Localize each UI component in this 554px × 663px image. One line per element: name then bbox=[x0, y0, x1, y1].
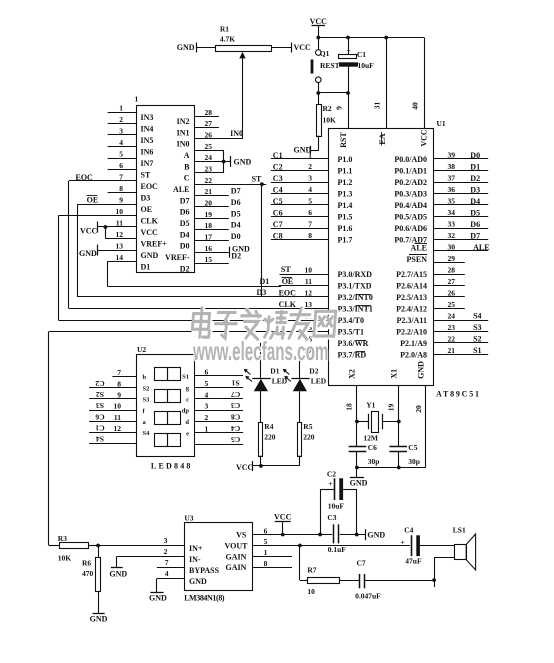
MCU pin 30 ALE wire / node ALE bbox=[411, 243, 490, 253]
svg-text:+: + bbox=[346, 46, 350, 55]
capacitor C2 10uF bbox=[320, 470, 357, 535]
svg-text:C3: C3 bbox=[327, 513, 336, 522]
svg-text:5: 5 bbox=[308, 197, 312, 206]
svg-text:C7: C7 bbox=[231, 390, 240, 399]
potentiometer R1 4.7K bbox=[197, 25, 292, 59]
wire R1 wiper to ADC IN0 bbox=[242, 58, 244, 139]
MCU pin 33 (P0.6/AD6) wire / node D6 bbox=[394, 220, 488, 234]
svg-text:R1: R1 bbox=[220, 25, 229, 34]
svg-text:PSEN: PSEN bbox=[407, 255, 428, 264]
MCU pin 3 (P1.2) wire / node C3 bbox=[271, 174, 353, 188]
svg-text:CLK: CLK bbox=[141, 216, 159, 225]
ADC pin 4 (IN6) wire bbox=[108, 138, 154, 156]
svg-text:IN1: IN1 bbox=[177, 128, 190, 137]
svg-text:4: 4 bbox=[165, 569, 169, 578]
ADC pin 26 (IN0) wire bbox=[177, 131, 243, 149]
ADC VREF- GND port bbox=[230, 245, 251, 258]
ADC A B C to GND junction bbox=[222, 150, 252, 173]
ADC pin 24 (B) wire bbox=[184, 153, 223, 171]
resistor R3 10K bbox=[58, 534, 100, 563]
U2 left pin 9 wire / node S2 bbox=[89, 390, 150, 404]
MCU pin 15 (P3.5/T1) wire bbox=[305, 323, 364, 337]
U2 digit segment blocks bbox=[155, 368, 181, 447]
svg-text:ALE: ALE bbox=[411, 243, 427, 252]
svg-text:26: 26 bbox=[448, 289, 456, 298]
svg-text:8: 8 bbox=[308, 231, 312, 240]
svg-text:S1: S1 bbox=[182, 373, 189, 380]
svg-text:25: 25 bbox=[448, 300, 456, 309]
svg-text:LED848: LED848 bbox=[151, 461, 191, 470]
svg-text:11: 11 bbox=[116, 219, 123, 228]
capacitor C1 10uF bbox=[339, 38, 375, 94]
svg-text:25: 25 bbox=[205, 142, 213, 151]
svg-text:6: 6 bbox=[205, 367, 209, 376]
U2 right pin x wire / node C5 bbox=[194, 435, 243, 444]
node D4 label at ADC pin 18 bbox=[231, 221, 241, 230]
U2 left pin 12 wire / node C1 bbox=[89, 424, 150, 438]
svg-text:EA: EA bbox=[378, 133, 387, 144]
ADC pin 19 (D5) wire bbox=[180, 210, 229, 228]
svg-text:C1: C1 bbox=[357, 50, 366, 59]
svg-text:VREF+: VREF+ bbox=[141, 239, 168, 248]
svg-text:D3: D3 bbox=[257, 288, 267, 297]
wire R3 to U3 IN+ bbox=[98, 545, 184, 547]
MCU pin 18 X2 wire bbox=[345, 369, 357, 447]
svg-text:5: 5 bbox=[264, 537, 268, 546]
svg-text:VCC: VCC bbox=[141, 228, 159, 237]
svg-text:5: 5 bbox=[119, 150, 123, 159]
MCU pin 2 (P1.1) wire / node C2 bbox=[271, 162, 353, 176]
MCU pin 35 (P0.4/AD4) wire / node D4 bbox=[394, 197, 488, 211]
svg-text:30p: 30p bbox=[368, 457, 380, 466]
svg-text:24: 24 bbox=[448, 312, 456, 321]
U3 pin 2 IN- wire to GND bbox=[109, 547, 200, 578]
svg-text:Y1: Y1 bbox=[366, 401, 375, 410]
svg-text:P0.4/AD4: P0.4/AD4 bbox=[394, 201, 427, 210]
svg-text:D6: D6 bbox=[231, 198, 241, 207]
U3 pin 5 VOUT wire bbox=[225, 537, 455, 550]
ADC pin 14 (D1) wire bbox=[107, 253, 150, 271]
MCU pin 9 RST wire bbox=[335, 93, 349, 148]
svg-text:D3: D3 bbox=[470, 185, 480, 194]
svg-text:32: 32 bbox=[448, 231, 456, 240]
wire net D1 from ADC pin14 bbox=[107, 262, 281, 287]
svg-text:5: 5 bbox=[205, 379, 209, 388]
svg-text:IN-: IN- bbox=[189, 555, 201, 564]
svg-text:VOUT: VOUT bbox=[225, 541, 249, 550]
svg-text:0.047uF: 0.047uF bbox=[355, 592, 381, 601]
svg-text:P3.7/RD: P3.7/RD bbox=[338, 351, 367, 360]
svg-text:7: 7 bbox=[165, 558, 169, 567]
svg-text:D0: D0 bbox=[470, 151, 480, 160]
svg-text:18: 18 bbox=[345, 403, 354, 411]
svg-text:2: 2 bbox=[308, 162, 312, 171]
svg-text:D2: D2 bbox=[180, 264, 190, 273]
svg-text:GND: GND bbox=[109, 569, 127, 578]
svg-text:U2: U2 bbox=[137, 345, 146, 354]
svg-text:D7: D7 bbox=[470, 231, 480, 240]
svg-text:1: 1 bbox=[135, 95, 139, 104]
MCU CLK label bbox=[279, 300, 297, 309]
watermark bbox=[192, 308, 337, 341]
svg-text:3: 3 bbox=[119, 127, 123, 136]
svg-text:D7: D7 bbox=[180, 196, 190, 205]
svg-text:ST: ST bbox=[281, 265, 291, 274]
MCU pin 27 (P2.6/A14) wire bbox=[396, 277, 465, 291]
svg-text:33: 33 bbox=[448, 220, 456, 229]
svg-text:OE: OE bbox=[282, 277, 294, 286]
MCU pin 25 (P2.4/A12) wire bbox=[396, 300, 465, 314]
svg-text:GAIN: GAIN bbox=[226, 563, 247, 572]
MCU pin 11 (P3.1/TXD) wire bbox=[279, 277, 372, 291]
MCU OE label bbox=[282, 277, 294, 286]
VCC power symbol top bbox=[310, 17, 328, 38]
svg-text:21: 21 bbox=[448, 346, 456, 355]
svg-text:S1: S1 bbox=[473, 346, 481, 355]
svg-text:GND: GND bbox=[149, 593, 167, 602]
svg-text:AT89C51: AT89C51 bbox=[436, 390, 479, 399]
svg-text:ALE: ALE bbox=[473, 243, 489, 252]
svg-text:C3: C3 bbox=[231, 401, 240, 410]
svg-text:C6: C6 bbox=[368, 443, 377, 452]
U2 right pin 4 wire / node C7 bbox=[186, 390, 243, 404]
svg-text:GND: GND bbox=[367, 530, 385, 539]
svg-text:D1: D1 bbox=[270, 367, 279, 376]
ADC EOC label bbox=[76, 173, 94, 182]
MCU pin 39 (P0.0/AD0) wire / node D0 bbox=[394, 151, 488, 165]
svg-text:U3: U3 bbox=[184, 513, 193, 522]
capacitor C4 47uF bbox=[401, 526, 422, 566]
svg-text:D2: D2 bbox=[231, 252, 241, 261]
svg-text:6: 6 bbox=[264, 526, 268, 535]
svg-text:R4: R4 bbox=[264, 422, 273, 431]
wire ADC VCC to VREF+ bbox=[105, 227, 107, 239]
svg-text:2: 2 bbox=[205, 413, 209, 422]
node D6 label at ADC pin 20 bbox=[231, 198, 241, 207]
svg-text:LS1: LS1 bbox=[453, 525, 466, 534]
svg-text:29: 29 bbox=[448, 254, 456, 263]
svg-text:9: 9 bbox=[117, 390, 121, 399]
svg-text:D1: D1 bbox=[260, 277, 270, 286]
svg-text:18: 18 bbox=[205, 221, 213, 230]
svg-text:20: 20 bbox=[414, 405, 423, 413]
ADC pin 7 (EOC) wire bbox=[69, 173, 158, 191]
svg-text:VCC: VCC bbox=[236, 463, 254, 472]
svg-text:P3.4/T0: P3.4/T0 bbox=[338, 316, 364, 325]
svg-text:S2: S2 bbox=[473, 335, 481, 344]
svg-text:16: 16 bbox=[205, 244, 213, 253]
MCU pin 37 (P0.2/AD2) wire / node D2 bbox=[394, 174, 488, 188]
svg-text:7: 7 bbox=[117, 368, 121, 377]
resistor R7 10 bbox=[307, 566, 359, 596]
svg-text:P1.0: P1.0 bbox=[338, 155, 353, 164]
ADC pin 1 (IN3) wire bbox=[108, 104, 154, 122]
MCU pin 5 (P1.4) wire / node C5 bbox=[271, 197, 353, 211]
ADC pin 23 (C) wire bbox=[184, 165, 224, 183]
svg-text:11: 11 bbox=[114, 413, 121, 422]
svg-text:R5: R5 bbox=[303, 422, 312, 431]
svg-text:27: 27 bbox=[205, 119, 213, 128]
U3 pin 8 GAIN wire bbox=[226, 559, 293, 572]
svg-text:3: 3 bbox=[164, 536, 168, 545]
ADC pin 17 (D0) wire bbox=[180, 233, 229, 251]
capacitor C5 30p bbox=[389, 443, 420, 467]
svg-text:220: 220 bbox=[303, 433, 315, 442]
svg-text:28: 28 bbox=[205, 108, 213, 117]
svg-text:S1: S1 bbox=[231, 379, 239, 388]
svg-text:IN3: IN3 bbox=[141, 113, 154, 122]
svg-text:10K: 10K bbox=[58, 554, 72, 563]
U2 right pin 6 wire bbox=[182, 367, 243, 380]
svg-text:C5: C5 bbox=[231, 435, 240, 444]
MCU pin 4 (P1.3) wire / node C4 bbox=[271, 185, 353, 199]
svg-text:C7: C7 bbox=[273, 220, 283, 229]
svg-text:R3: R3 bbox=[58, 534, 67, 543]
svg-text:Q1: Q1 bbox=[320, 49, 330, 58]
svg-text:S4: S4 bbox=[143, 430, 151, 437]
U2 right pin 2 wire / node C8 bbox=[185, 412, 243, 426]
svg-text:C5: C5 bbox=[408, 443, 417, 452]
svg-text:0.1uF: 0.1uF bbox=[328, 545, 347, 554]
MCU pin 1 (P1.0) wire / node C1 bbox=[271, 151, 353, 165]
svg-text:P3.0/RXD: P3.0/RXD bbox=[338, 270, 373, 279]
svg-text:D4: D4 bbox=[470, 197, 480, 206]
U2 right pin 1 wire / node C4 bbox=[186, 424, 243, 438]
ADC pin 21 (D7) wire bbox=[180, 187, 229, 205]
GND port at C3 bbox=[366, 529, 386, 540]
svg-text:P1.3: P1.3 bbox=[338, 190, 353, 199]
svg-text:P1.5: P1.5 bbox=[338, 213, 353, 222]
MCU U1 AT89C51 body bbox=[329, 119, 480, 399]
svg-text:D6: D6 bbox=[180, 208, 190, 217]
svg-text:ALE: ALE bbox=[173, 185, 189, 194]
svg-text:VS: VS bbox=[236, 530, 247, 539]
svg-text:21: 21 bbox=[205, 187, 213, 196]
svg-text:IN+: IN+ bbox=[189, 544, 203, 553]
svg-text:C4: C4 bbox=[231, 424, 240, 433]
MCU pin 7 (P1.6) wire / node C7 bbox=[271, 220, 353, 234]
svg-text:22: 22 bbox=[205, 176, 213, 185]
node D7 label at ADC pin 21 bbox=[231, 187, 241, 196]
node D5 label at ADC pin 19 bbox=[231, 209, 241, 218]
svg-text:D2: D2 bbox=[470, 174, 480, 183]
MCU pin 19 X1 wire bbox=[387, 369, 399, 447]
LED D1 bbox=[244, 367, 288, 392]
capacitor C6 30p bbox=[349, 443, 380, 467]
MCU pin 17 (P3.7/RD) wire bbox=[305, 346, 367, 360]
svg-text:36: 36 bbox=[448, 185, 456, 194]
ADC VCC power port bbox=[80, 222, 107, 236]
wire LED D2 to resistor R5 bbox=[299, 391, 301, 422]
svg-text:IN7: IN7 bbox=[141, 159, 154, 168]
U2 left pin 10 wire / node S3 bbox=[89, 401, 145, 415]
svg-text:GND: GND bbox=[189, 577, 207, 586]
svg-text:28: 28 bbox=[448, 266, 456, 275]
resistor R4 220 bbox=[259, 422, 276, 466]
svg-text:C6: C6 bbox=[95, 412, 104, 421]
svg-text:VCC: VCC bbox=[294, 43, 312, 52]
svg-text:GND: GND bbox=[350, 479, 368, 488]
svg-text:D7: D7 bbox=[231, 187, 241, 196]
ADC OE label bbox=[87, 196, 99, 205]
display U2 LED848 body bbox=[137, 345, 195, 470]
U2 left pin 8 wire / node C2 bbox=[89, 379, 149, 393]
ADC pin 27 (IN1) wire bbox=[177, 119, 219, 137]
GND port below R6 bbox=[90, 614, 108, 624]
svg-text:D6: D6 bbox=[470, 220, 480, 229]
svg-text:12: 12 bbox=[116, 230, 124, 239]
svg-text:REST: REST bbox=[320, 61, 340, 70]
svg-text:X2: X2 bbox=[348, 369, 357, 379]
svg-text:D2: D2 bbox=[309, 367, 318, 376]
svg-text:D3: D3 bbox=[141, 193, 151, 202]
svg-text:D4: D4 bbox=[180, 230, 190, 239]
wire reset node bbox=[316, 91, 350, 95]
U2 right pin 3 wire / node C3 bbox=[182, 401, 243, 415]
svg-text:15: 15 bbox=[205, 255, 213, 264]
svg-text:P2.6/A14: P2.6/A14 bbox=[396, 282, 427, 291]
svg-text:R7: R7 bbox=[307, 566, 316, 575]
resistor R5 220 bbox=[298, 422, 315, 466]
svg-text:38: 38 bbox=[448, 162, 456, 171]
svg-text:C4: C4 bbox=[273, 186, 283, 195]
svg-text:D1: D1 bbox=[141, 262, 151, 271]
MCU pin 10 (P3.0/RXD) wire bbox=[280, 266, 373, 280]
svg-text:24: 24 bbox=[205, 153, 213, 162]
node IN0 label bbox=[230, 129, 243, 138]
U3 pin 1 GAIN wire bbox=[226, 548, 293, 561]
VCC port at LED resistors bbox=[236, 461, 300, 472]
svg-text:OE: OE bbox=[141, 205, 153, 214]
svg-text:P2.7/A15: P2.7/A15 bbox=[396, 270, 427, 279]
svg-text:D5: D5 bbox=[231, 209, 241, 218]
svg-text:10uF: 10uF bbox=[328, 501, 345, 510]
svg-text:c: c bbox=[186, 396, 189, 403]
ADC pin 9 (OE) wire bbox=[78, 196, 152, 214]
svg-text:C2: C2 bbox=[327, 470, 336, 479]
svg-text:LM384N1(8): LM384N1(8) bbox=[184, 593, 225, 602]
svg-text:470: 470 bbox=[82, 569, 94, 578]
MCU pin 22 (P2.1/A9) wire bbox=[400, 335, 488, 349]
svg-text:BYPASS: BYPASS bbox=[189, 566, 220, 575]
svg-text:S3: S3 bbox=[96, 401, 104, 410]
svg-text:8: 8 bbox=[119, 184, 123, 193]
ADC pin 13 (GND) wire bbox=[98, 242, 159, 260]
svg-text:VCC: VCC bbox=[310, 17, 328, 26]
svg-text:VCC: VCC bbox=[80, 226, 98, 235]
MCU pin 6 (P1.5) wire / node C6 bbox=[271, 208, 353, 222]
U3 pin 6 VS wire bbox=[236, 526, 365, 539]
capacitor C7 0.047uF bbox=[355, 558, 434, 600]
VCC port at R1 bbox=[292, 43, 312, 53]
svg-text:A: A bbox=[184, 151, 190, 160]
svg-text:S2: S2 bbox=[96, 390, 104, 399]
svg-text:P0.1/AD1: P0.1/AD1 bbox=[394, 167, 427, 176]
svg-text:10uF: 10uF bbox=[358, 61, 375, 70]
svg-text:P2.3/A11: P2.3/A11 bbox=[397, 316, 427, 325]
svg-text:P0.2/AD2: P0.2/AD2 bbox=[394, 178, 427, 187]
svg-text:P2.4/A12: P2.4/A12 bbox=[396, 305, 427, 314]
svg-text:22: 22 bbox=[448, 335, 456, 344]
svg-text:4: 4 bbox=[205, 390, 209, 399]
MCU pin 29 PSEN stub bbox=[407, 254, 465, 264]
MCU pin 32 (P0.7/AD7) wire / node D7 bbox=[394, 231, 488, 245]
svg-text:D0: D0 bbox=[180, 242, 190, 251]
svg-text:9: 9 bbox=[119, 196, 123, 205]
MCU pin 38 (P0.1/AD1) wire / node D1 bbox=[394, 162, 488, 176]
svg-text:26: 26 bbox=[205, 131, 213, 140]
svg-text:IN5: IN5 bbox=[141, 136, 154, 145]
MCU pin 8 (P1.7) wire / node C8 bbox=[271, 231, 353, 245]
svg-text:b: b bbox=[143, 374, 147, 381]
GND port at crystal rail bbox=[350, 468, 368, 488]
svg-text:GAIN: GAIN bbox=[226, 552, 247, 561]
svg-text:19: 19 bbox=[205, 210, 213, 219]
svg-text:6: 6 bbox=[119, 161, 123, 170]
node ST at ADC ALE pin bbox=[252, 175, 264, 186]
svg-text:13: 13 bbox=[116, 242, 124, 251]
node D0 label at ADC pin 17 bbox=[231, 232, 241, 241]
svg-text:LED: LED bbox=[311, 377, 327, 386]
capacitor C3 0.1uF bbox=[327, 513, 346, 554]
svg-text:D1: D1 bbox=[470, 162, 480, 171]
ADC GND power port bbox=[79, 245, 98, 259]
wire speaker return bbox=[432, 557, 454, 587]
svg-text:C6: C6 bbox=[273, 209, 283, 218]
GND port at R1 bbox=[177, 43, 197, 53]
GND port at R2 bbox=[294, 146, 319, 155]
svg-text:D5: D5 bbox=[470, 208, 480, 217]
svg-text:20: 20 bbox=[205, 199, 213, 208]
svg-text:7: 7 bbox=[119, 173, 123, 182]
svg-text:e: e bbox=[186, 431, 189, 438]
svg-text:10K: 10K bbox=[323, 115, 337, 124]
svg-text:27: 27 bbox=[448, 277, 456, 286]
svg-text:IN0: IN0 bbox=[177, 140, 190, 149]
svg-text:P2.1/A9: P2.1/A9 bbox=[400, 339, 427, 348]
svg-text:14: 14 bbox=[116, 253, 124, 262]
svg-text:8: 8 bbox=[117, 379, 121, 388]
svg-text:2: 2 bbox=[164, 547, 168, 556]
wire MCU to LED D2 bbox=[299, 355, 301, 379]
svg-text:IN6: IN6 bbox=[141, 147, 154, 156]
resistor R6 470 bbox=[82, 546, 101, 614]
svg-text:S3: S3 bbox=[473, 323, 481, 332]
MCU pin 31 EA wire bbox=[373, 38, 388, 146]
svg-text:R2: R2 bbox=[323, 104, 332, 113]
MCU pin 40 VCC wire bbox=[411, 38, 429, 147]
svg-text:30: 30 bbox=[448, 243, 456, 252]
U2 left pin 7 wire bbox=[112, 368, 146, 381]
svg-text:10: 10 bbox=[114, 402, 122, 411]
svg-text:ST: ST bbox=[252, 175, 262, 184]
wire MCU to LED D1 bbox=[260, 343, 262, 378]
svg-text:U1: U1 bbox=[437, 119, 446, 128]
svg-text:GND: GND bbox=[79, 249, 97, 258]
ADC pin 12 (VREF+) wire bbox=[105, 230, 167, 248]
MCU pin 23 (P2.2/A10) wire bbox=[396, 323, 488, 337]
svg-text:1: 1 bbox=[119, 104, 123, 113]
svg-text:8: 8 bbox=[264, 559, 268, 568]
MCU EOC label bbox=[279, 288, 297, 297]
svg-text:VCC: VCC bbox=[420, 129, 429, 147]
svg-text:11: 11 bbox=[305, 277, 312, 286]
ADC pin 25 (A) wire bbox=[184, 142, 224, 160]
svg-text:12M: 12M bbox=[363, 433, 378, 442]
wire VOUT branch to R7 bbox=[300, 546, 308, 581]
svg-text:GND: GND bbox=[90, 614, 108, 623]
svg-text:P3.1/TXD: P3.1/TXD bbox=[338, 282, 372, 291]
